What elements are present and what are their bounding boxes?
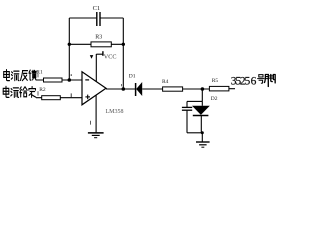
svg-text:R4: R4 (162, 79, 169, 85)
svg-text:R1: R1 (36, 69, 43, 75)
svg-text:VCC: VCC (104, 53, 117, 60)
svg-text:D2: D2 (211, 96, 218, 102)
svg-text:R5: R5 (212, 78, 219, 84)
svg-text:3525 6: 3525 6 (231, 75, 257, 87)
svg-text:C1: C1 (93, 5, 101, 12)
svg-text:R3: R3 (95, 34, 102, 40)
svg-text:R2: R2 (39, 87, 46, 93)
svg-text:LM358: LM358 (106, 109, 124, 115)
svg-text:D1: D1 (129, 73, 136, 79)
